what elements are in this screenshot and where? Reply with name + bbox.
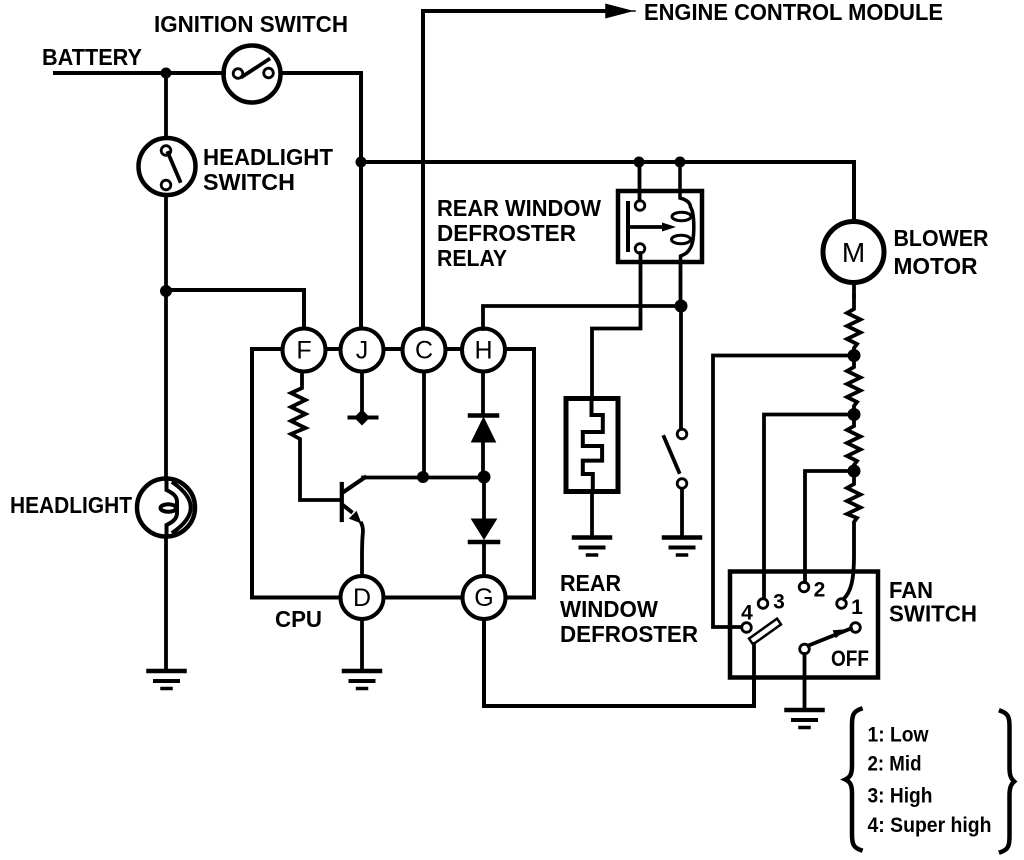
terminal F	[283, 329, 326, 372]
svg-text:F: F	[296, 337, 311, 365]
svg-text:2: 2	[814, 579, 826, 602]
legend right brace	[1001, 711, 1014, 852]
blower motor M1	[823, 222, 884, 283]
wire J terminal stub	[360, 371, 364, 412]
node tap 2	[848, 465, 861, 478]
wire relay coil to switch	[679, 262, 683, 428]
legend text	[868, 724, 992, 838]
svg-text:4: 4	[741, 602, 753, 625]
diode D1	[470, 416, 497, 472]
wire ignition switch to J	[281, 73, 361, 329]
wire blade to bottom	[752, 644, 756, 678]
ground defroster switch	[664, 538, 700, 556]
resistor R3 blower	[847, 356, 861, 415]
resistor R4 blower	[847, 415, 861, 472]
terminal J	[341, 329, 384, 372]
wire relay contact to defroster	[592, 253, 641, 398]
wire H terminal down	[481, 371, 485, 414]
svg-text:OFF: OFF	[831, 646, 869, 671]
node relay coil junction	[675, 300, 688, 313]
relay K1	[618, 162, 702, 262]
CPU box	[252, 349, 534, 598]
node headlight tap junction	[160, 285, 172, 297]
wire main bus to blower motor	[361, 162, 854, 221]
fan terminal 4	[742, 623, 752, 633]
wire G terminal to fan switch	[484, 619, 754, 707]
svg-text:1: Low: 1: Low	[868, 724, 930, 747]
node tap 3	[848, 408, 861, 421]
fan terminal 3	[758, 599, 768, 609]
wire D terminal to ground	[360, 619, 364, 670]
svg-text:D: D	[353, 584, 371, 612]
wire C to engine control module	[423, 11, 607, 329]
wire motor to resistor	[852, 283, 856, 296]
wire tap to fan terminal 2	[805, 471, 854, 582]
headlight lamp	[137, 479, 195, 537]
label BLOWER MOTOR	[894, 225, 989, 279]
wire headlight to ground	[164, 537, 168, 670]
fan terminal 2	[799, 582, 809, 592]
terminal bar under J	[350, 410, 377, 426]
label REAR WINDOW DEFROSTER RELAY	[437, 195, 601, 271]
svg-text:3: 3	[773, 591, 785, 614]
svg-text:G: G	[474, 584, 493, 612]
svg-text:CPU: CPU	[275, 606, 322, 632]
svg-text:4: Super high: 4: Super high	[868, 814, 992, 837]
rear window defroster element	[566, 399, 618, 493]
svg-text:3: High: 3: High	[868, 785, 933, 808]
svg-text:HEADLIGHT: HEADLIGHT	[10, 492, 132, 518]
ground defroster	[574, 538, 610, 556]
fan switch blade at 4	[749, 619, 781, 645]
fan switch box	[730, 572, 878, 678]
svg-text:FAN: FAN	[889, 577, 933, 603]
node relay contact supply junction	[634, 157, 645, 168]
wire collector to C and H	[363, 476, 484, 480]
svg-text:BLOWER: BLOWER	[894, 225, 989, 251]
diode D2	[470, 483, 498, 576]
terminal C	[403, 329, 446, 372]
legend left brace	[845, 709, 860, 850]
svg-text:REAR WINDOW: REAR WINDOW	[437, 195, 601, 221]
wire tap to fan terminal 3	[764, 415, 854, 599]
svg-text:C: C	[415, 337, 433, 365]
svg-text:ENGINE CONTROL MODULE: ENGINE CONTROL MODULE	[644, 0, 943, 25]
node relay coil supply junction	[675, 157, 686, 168]
svg-text:2: Mid: 2: Mid	[868, 753, 922, 776]
svg-text:MOTOR: MOTOR	[894, 253, 978, 279]
wire battery to ignition switch	[55, 71, 224, 75]
svg-text:DEFROSTER: DEFROSTER	[437, 220, 576, 246]
svg-text:J: J	[356, 337, 369, 365]
headlight switch SW2	[139, 138, 196, 195]
svg-text:IGNITION SWITCH: IGNITION SWITCH	[154, 11, 348, 37]
svg-text:WINDOW: WINDOW	[560, 596, 658, 622]
ground fan switch	[787, 710, 823, 728]
resistor R1 inside CPU	[291, 371, 340, 500]
ground CPU D	[344, 671, 380, 689]
svg-text:SWITCH: SWITCH	[203, 169, 295, 195]
wire battery to headlight switch	[164, 73, 168, 138]
label FAN SWITCH	[889, 577, 977, 627]
arrow engine control module	[606, 5, 635, 18]
terminal G	[463, 576, 506, 619]
svg-text:HEADLIGHT: HEADLIGHT	[203, 144, 333, 170]
svg-text:BATTERY: BATTERY	[42, 44, 142, 70]
ignition switch SW1	[224, 46, 281, 103]
resistor R5 blower	[844, 471, 861, 599]
wire C terminal down	[422, 371, 426, 477]
wire junction to CPU terminal F	[166, 290, 304, 329]
ground headlight	[149, 671, 185, 689]
fan switch wiper	[800, 623, 861, 654]
svg-text:DEFROSTER: DEFROSTER	[560, 621, 698, 647]
node ignition bus junction	[356, 157, 367, 168]
label REAR WINDOW DEFROSTER	[560, 570, 698, 647]
node tap 4	[848, 349, 861, 362]
wire H to relay coil bus	[483, 306, 681, 329]
defroster switch SW3	[664, 429, 687, 536]
terminal H	[462, 329, 505, 372]
node collector junction C	[417, 471, 429, 483]
wire headlight switch to headlight	[164, 195, 168, 479]
wire tap to fan terminal 4	[713, 356, 854, 628]
terminal D	[341, 576, 384, 619]
svg-text:REAR: REAR	[560, 570, 621, 596]
svg-text:RELAY: RELAY	[437, 245, 507, 271]
node battery junction	[161, 68, 172, 79]
transistor Q1	[342, 478, 365, 577]
resistor R2 blower	[847, 296, 861, 356]
svg-text:M: M	[842, 237, 865, 268]
fan terminal 1	[837, 599, 847, 609]
wire fan switch to ground	[803, 654, 807, 708]
wire defroster to ground	[590, 492, 594, 536]
svg-text:SWITCH: SWITCH	[889, 601, 977, 627]
node H junction	[478, 471, 491, 484]
svg-text:H: H	[474, 337, 492, 365]
svg-text:1: 1	[851, 596, 863, 619]
